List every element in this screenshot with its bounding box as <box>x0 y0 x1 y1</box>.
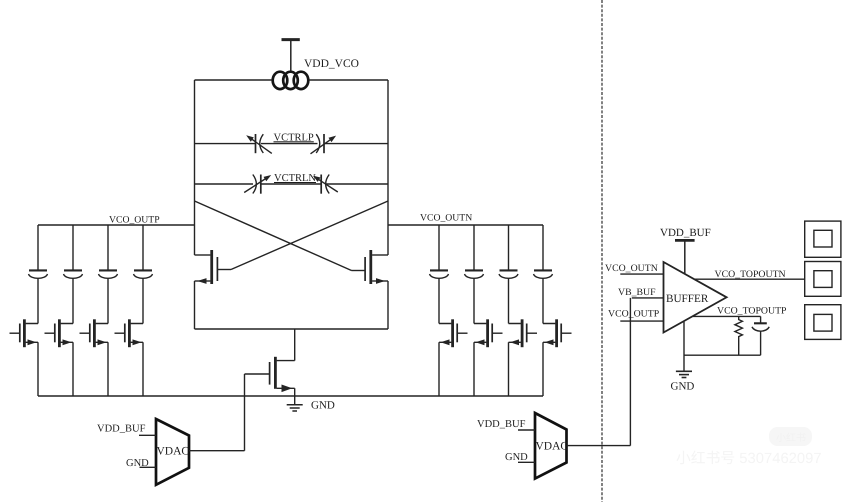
cross-couple wire gate M1 to drain M2 <box>231 201 388 270</box>
wire VDD_BUF input <box>518 429 535 431</box>
transistor M10 <box>509 319 538 347</box>
VCO_OUTP rail wire <box>38 224 195 226</box>
svg-text:GND: GND <box>671 381 695 393</box>
wire VB_BUF input <box>632 297 664 299</box>
svg-text:VDD_BUF: VDD_BUF <box>660 227 711 239</box>
svg-text:VCTRLN: VCTRLN <box>274 173 316 184</box>
svg-text:GND: GND <box>311 400 335 412</box>
VDAC U3 (right) <box>535 413 568 479</box>
branch wire B8 <box>542 225 544 396</box>
VCTRLN wire <box>195 183 389 185</box>
wire VDD_BUF input <box>139 434 156 436</box>
inductor L1 <box>273 72 309 89</box>
wire VCO_OUTN input <box>620 273 663 275</box>
capacitor C6 <box>465 270 484 278</box>
transistor M5 <box>45 319 74 347</box>
tank box right edge wire <box>387 80 389 329</box>
svg-text:VB_BUF: VB_BUF <box>618 287 656 298</box>
bottom rail wire <box>38 395 543 397</box>
varactor CV2 (VCTRLP right) <box>311 134 337 154</box>
svg-text:VCO_OUTN: VCO_OUTN <box>605 263 658 274</box>
svg-text:VCO_OUTP: VCO_OUTP <box>608 309 660 320</box>
wire GND input <box>140 466 157 468</box>
varactor CV4 (VCTRLN right) <box>313 175 338 194</box>
transistor M3 (tail current source) <box>245 357 295 405</box>
svg-text:VCO_OUTP: VCO_OUTP <box>109 215 160 226</box>
varactor CV3 (VCTRLN left) <box>244 175 271 194</box>
transistor M11 <box>543 319 572 347</box>
svg-text:VDD_VCO: VDD_VCO <box>304 58 359 70</box>
pad P2 <box>805 262 841 297</box>
wire VDAC1 output to tail gate <box>189 374 245 451</box>
capacitor C8 <box>534 270 553 278</box>
pad P3 <box>805 305 841 340</box>
VDAC U2 (left) <box>156 419 189 485</box>
op-amp U1 buffer <box>664 262 727 333</box>
source bar wire <box>195 328 389 330</box>
VCTRLP wire <box>195 143 389 145</box>
VCO_OUTN rail wire <box>388 224 543 226</box>
tank box top wire <box>195 79 389 81</box>
watermark badge <box>769 427 812 446</box>
svg-text:VDAC: VDAC <box>157 446 190 458</box>
capacitor C3 <box>99 270 118 278</box>
svg-text:BUFFER: BUFFER <box>666 293 709 305</box>
svg-text:VDD_BUF: VDD_BUF <box>477 419 526 430</box>
wire VCO_OUTP input <box>620 320 663 322</box>
VDD_BUF supply bar (buffer) <box>675 240 695 274</box>
capacitor C4 <box>134 270 153 278</box>
transistor M7 <box>115 319 144 347</box>
center tail wire <box>277 329 295 361</box>
branch wire B1 <box>37 225 39 396</box>
wire VCO_TOPOUTP output <box>693 315 761 317</box>
transistor M2 (cross-coupled right) <box>352 250 389 284</box>
wire VCO_TOPOUTN output <box>695 278 805 280</box>
capacitor C9 <box>752 316 769 355</box>
capacitor C1 <box>29 270 48 278</box>
wire VDAC2 output to VB_BUF <box>567 298 631 446</box>
ground (tail) <box>287 405 303 411</box>
svg-text:VCTRLP: VCTRLP <box>274 132 314 143</box>
branch wire B5 <box>438 225 440 396</box>
transistor M8 <box>439 319 468 347</box>
tank box left edge wire <box>194 80 196 329</box>
capacitor C2 <box>64 270 83 278</box>
varactor CV1 (VCTRLP left) <box>246 134 272 153</box>
resistor R1 <box>735 316 743 355</box>
svg-text:VDD_BUF: VDD_BUF <box>97 424 146 435</box>
branch wire B2 <box>72 225 74 396</box>
ground (buffer) <box>676 371 692 377</box>
branch wire B3 <box>107 225 109 396</box>
svg-text:小红书: 小红书 <box>776 432 806 444</box>
transistor M1 (cross-coupled left) <box>195 250 232 284</box>
svg-text:VCO_OUTN: VCO_OUTN <box>420 213 472 224</box>
capacitor C5 <box>430 270 449 278</box>
svg-text:小红书号 5307462097: 小红书号 5307462097 <box>676 450 822 467</box>
transistor M4 <box>10 319 39 347</box>
svg-text:VCO_TOPOUTP: VCO_TOPOUTP <box>717 306 787 317</box>
transistor M9 <box>474 319 503 347</box>
branch wire B4 <box>142 225 144 396</box>
wire buffer ground rail <box>684 322 761 371</box>
svg-text:VDAC: VDAC <box>536 441 569 453</box>
cross-couple wire gate M2 to drain M1 <box>195 201 352 271</box>
svg-text:GND: GND <box>505 452 528 463</box>
VDD_VCO supply bar <box>282 40 300 73</box>
wire GND input <box>518 461 535 463</box>
svg-text:VCO_TOPOUTN: VCO_TOPOUTN <box>715 269 786 280</box>
pad P1 <box>805 221 841 257</box>
branch wire B6 <box>473 225 475 396</box>
transistor M6 <box>80 319 109 347</box>
dashed separator line <box>601 0 603 502</box>
capacitor C7 <box>499 270 518 278</box>
branch wire B7 <box>508 225 510 396</box>
